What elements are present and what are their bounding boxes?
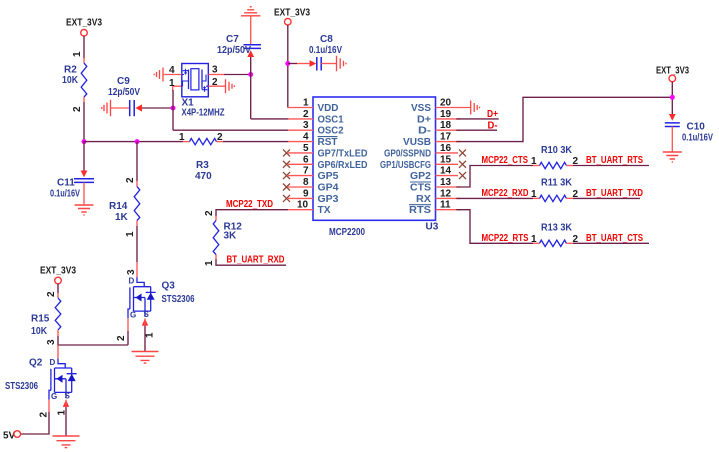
svg-text:C9: C9 [117,76,130,87]
svg-text:VUSB: VUSB [403,137,431,148]
wire Q3 source to ground [142,318,156,351]
wire R2 pin2 to RST node [72,97,84,142]
svg-text:3: 3 [126,269,137,275]
svg-text:1: 1 [72,51,83,57]
wire X1 pin1 down to OSC2 row [173,86,289,130]
wire pin11 RTS to R13 row [456,210,539,244]
svg-text:20: 20 [440,98,452,109]
ground (top, inverted) above C7 [241,7,260,45]
wire and net label BT_UART_RTS [567,155,650,166]
svg-text:1: 1 [531,189,537,200]
resistor R13 3K [531,223,579,247]
svg-text:R11 3K: R11 3K [541,178,573,189]
power port 5V [3,431,21,442]
resistor R3 470 [179,132,223,182]
no connect X pin 14 [459,172,466,179]
pin 9 GP3 [288,188,339,205]
svg-text:GP7/TxLED: GP7/TxLED [318,148,368,159]
svg-text:X4P-12MHZ: X4P-12MHZ [182,108,225,119]
ground below C11 [75,205,94,215]
svg-text:12: 12 [440,188,452,199]
svg-text:C11: C11 [57,178,75,189]
resistor R10 3K [531,145,579,169]
svg-text:D: D [50,358,56,367]
wire C7 to OSC1 row [251,57,289,119]
svg-text:C8: C8 [320,34,333,45]
svg-text:0.1u/16V: 0.1u/16V [682,133,713,144]
svg-text:BT_UART_RXD: BT_UART_RXD [227,255,285,266]
svg-text:D-: D- [418,126,431,137]
svg-text:10: 10 [297,200,309,211]
svg-text:RST: RST [318,137,338,148]
svg-text:BT_UART_RTS: BT_UART_RTS [586,155,643,166]
svg-text:RTS: RTS [409,205,431,216]
svg-text:4: 4 [303,132,309,143]
pin 8 GP4 [288,177,339,194]
capacitor C7 12p/50V [217,34,261,57]
ground (sideways) left of C9 [102,100,111,117]
svg-text:EXT_3V3: EXT_3V3 [66,18,102,29]
ground below Q2 [53,436,80,448]
svg-text:Q2: Q2 [29,358,43,369]
no connect X pin 7 [283,172,290,179]
svg-text:10K: 10K [62,75,79,86]
wire R14 column [125,142,137,187]
svg-text:STS2306: STS2306 [5,381,38,392]
svg-text:MCP22_CTS: MCP22_CTS [482,155,529,166]
pin 13 CTS [410,177,461,194]
power port EXT_3V3 (top left) [66,18,102,37]
ground (sideways) at VSS [471,101,480,115]
svg-text:1: 1 [303,98,309,109]
pin 1 VDD [288,98,339,115]
node junction at R2/C11 [82,139,87,144]
wire down to C11 [83,142,85,171]
svg-text:R14: R14 [109,201,128,212]
resistor R15 10K [31,298,61,337]
wire pin13 CTS to R10 row [456,166,539,188]
svg-text:0.1u/16V: 0.1u/16V [309,45,342,56]
svg-text:C10: C10 [687,122,706,133]
capacitor C8 0.1u/16V [288,34,342,71]
pin 16 GP0/SSPND [384,143,458,160]
wire R12 pin1 to BT_UART_RXD [204,255,286,267]
node junction at R14 top [135,139,140,144]
pin 5 GP7/TxLED [288,143,368,160]
svg-text:MCP22_TXD: MCP22_TXD [226,199,273,210]
svg-text:3: 3 [212,65,218,76]
pin 6 GP6/RxLED [288,154,368,171]
svg-text:13: 13 [440,177,452,188]
svg-text:R2: R2 [64,65,77,76]
svg-text:1K: 1K [115,212,129,223]
svg-text:GP1/USBCFG: GP1/USBCFG [380,160,431,171]
wire EXT_3V3 to R15 [46,284,58,298]
svg-text:VDD: VDD [318,103,339,114]
pin 3 OSC2 [288,120,344,137]
svg-text:15: 15 [440,154,452,165]
svg-text:D: D [129,277,135,286]
svg-text:GP2: GP2 [410,171,431,182]
ground below Q3 [132,352,159,364]
svg-text:EXT_3V3: EXT_3V3 [274,8,310,19]
wire EXT_3V3 down to C10 [671,82,673,114]
svg-text:GP6/RxLED: GP6/RxLED [318,160,368,171]
pin 7 GP5 [288,166,339,183]
svg-text:R13 3K: R13 3K [541,223,573,234]
wire and net label BT_UART_CTS [567,233,650,244]
node junction VUSB/EXT_3V3/C10 [670,95,675,100]
svg-text:2: 2 [125,177,136,183]
no connect X pin 9 [283,195,290,202]
svg-text:R10 3K: R10 3K [541,145,573,156]
svg-text:2: 2 [204,210,215,216]
svg-text:TX: TX [318,205,331,216]
wire R15 pin to Q2/Q3 node [46,318,128,358]
svg-text:9: 9 [303,188,309,199]
svg-text:1: 1 [531,234,537,245]
resistor R2 [62,63,87,97]
svg-text:1: 1 [145,332,156,338]
pin 10 TX [288,200,331,217]
capacitor C9 12p/50V [108,76,142,116]
node junction VDD/C8 [285,61,290,66]
svg-text:1: 1 [179,132,185,143]
wire pin12 RX to R11 row [456,197,539,199]
svg-text:Q3: Q3 [162,281,176,292]
svg-text:2: 2 [212,77,218,88]
pin 20 VSS [411,98,471,115]
svg-text:D+: D+ [487,109,498,120]
svg-text:G: G [130,311,136,320]
wire R14 pin1 to Q3 drain [125,221,137,278]
svg-text:GP5: GP5 [318,171,339,182]
svg-text:19: 19 [440,109,452,120]
svg-text:7: 7 [303,166,309,177]
svg-text:R3: R3 [196,160,209,171]
svg-text:470: 470 [195,171,212,182]
wire and net label BT_UART_TXD [567,188,644,199]
pin 18 D- [418,120,461,137]
pin 4 RST [288,132,338,149]
node junction X1 pin3 / C7 [248,72,253,77]
svg-text:1: 1 [169,78,175,89]
capacitor C10 0.1u/16V [665,114,713,152]
svg-text:2: 2 [72,106,83,112]
svg-text:2: 2 [116,335,127,341]
pin 14 GP2 [410,166,458,183]
svg-text:GP4: GP4 [318,183,339,194]
svg-text:C7: C7 [226,34,239,45]
svg-text:MCP2200: MCP2200 [329,227,365,238]
svg-text:VSS: VSS [411,103,431,114]
pin 12 RX [416,188,461,205]
resistor R12 3K [213,221,242,255]
svg-text:S: S [65,391,71,400]
svg-text:CTS: CTS [410,183,431,194]
wire EXT_3V3 to VDD [287,25,290,108]
svg-text:10K: 10K [31,326,48,337]
no connect X pin 16 [459,149,466,156]
pin 17 VUSB [403,132,461,149]
wire EXT_3V3 to R2 pin1 [72,36,84,63]
svg-text:U3: U3 [426,222,439,233]
svg-text:2: 2 [303,109,309,120]
svg-text:1: 1 [531,156,537,167]
ground (sideways) right of C8 [337,56,347,72]
svg-text:G: G [51,392,57,401]
svg-text:RX: RX [416,194,431,205]
resistor R14 1K [109,187,140,224]
wire X1 pin3 to C7 node [224,74,251,76]
svg-text:BT_UART_TXD: BT_UART_TXD [586,188,643,199]
wire VUSB to EXT_3V3 node [456,97,672,141]
no connect X pin 5 [283,149,290,156]
node junction C9/X1 pin1 [171,106,176,111]
svg-text:3: 3 [303,120,309,131]
no connect X pin 15 [459,161,466,168]
transistor Q2 STS2306 [5,358,77,401]
wire Q2 gate to 5V [20,400,49,434]
svg-text:2: 2 [217,132,223,143]
power port EXT_3V3 (bottom left) [40,266,76,284]
svg-text:MCP22_RXD: MCP22_RXD [482,188,529,199]
wire C9 to crystal pin1 node [142,107,173,109]
svg-text:0.1u/16V: 0.1u/16V [50,189,80,200]
svg-text:2: 2 [39,412,50,418]
ground below C10 [663,152,682,162]
svg-text:12p/50V: 12p/50V [217,45,251,56]
svg-text:D-: D- [488,120,498,131]
svg-text:18: 18 [440,120,452,131]
power port EXT_3V3 (top right) [656,66,689,82]
svg-text:8: 8 [303,177,309,188]
svg-text:2: 2 [46,291,57,297]
svg-text:OSC1: OSC1 [318,114,344,125]
svg-text:16: 16 [440,143,452,154]
svg-text:GP3: GP3 [318,194,339,205]
transistor Q3 STS2306 [128,277,195,320]
wire pin10 TX to R12 [204,210,288,221]
svg-text:1: 1 [204,260,215,266]
svg-text:OSC2: OSC2 [318,126,344,137]
svg-text:STS2306: STS2306 [162,294,195,305]
svg-text:MCP22_RTS: MCP22_RTS [482,233,529,244]
svg-text:1: 1 [125,231,136,237]
svg-text:D+: D+ [417,114,431,125]
svg-text:4: 4 [169,65,175,76]
wire and net label D+ [456,109,498,120]
wire and net label D- [456,120,497,131]
svg-text:17: 17 [440,132,452,143]
ground (sideways) left of X1 pin4 [154,68,163,82]
power port EXT_3V3 (top middle) [274,8,310,26]
resistor R11 3K [531,178,579,202]
svg-text:BT_UART_CTS: BT_UART_CTS [586,233,643,244]
svg-text:R15: R15 [31,314,50,325]
pin 15 GP1/USBCFG [380,154,458,171]
ground (sideways) right of X1 pin2 [226,79,235,93]
svg-text:11: 11 [440,200,451,211]
no connect X pin 8 [283,184,290,191]
pin 19 D+ [417,109,461,126]
crystal X1 X4P-12MHZ [163,64,225,119]
svg-text:GP0/SSPND: GP0/SSPND [384,148,431,159]
wire Q2 source to ground [57,400,70,436]
svg-text:6: 6 [303,154,309,165]
svg-text:12p/50V: 12p/50V [108,87,140,98]
svg-text:S: S [144,310,150,319]
svg-text:5: 5 [303,143,309,154]
wire RST row horizontal [84,141,289,143]
capacitor C11 [50,171,94,206]
svg-text:3: 3 [46,339,57,345]
svg-text:3K: 3K [224,231,238,242]
pin 11 RTS [409,200,461,217]
svg-text:14: 14 [440,166,452,177]
pin 2 OSC1 [288,109,344,126]
svg-text:1: 1 [57,410,68,416]
svg-text:EXT_3V3: EXT_3V3 [40,266,76,277]
no connect X pin 6 [283,161,290,168]
IC U3 MCP2200 body [313,97,439,238]
